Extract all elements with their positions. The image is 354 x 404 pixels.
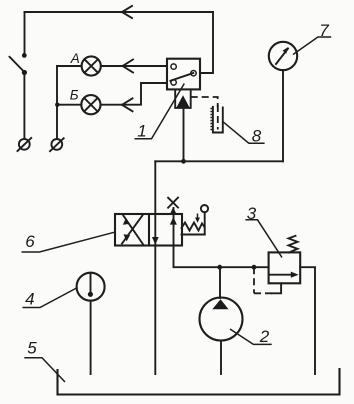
wire: main line to valve — [154, 161, 156, 214]
switch S — [10, 53, 28, 75]
directional valve 6: actuator arrow — [195, 214, 200, 223]
node: sensing junction — [181, 159, 186, 164]
wire: sensing line down — [183, 108, 185, 161]
wire: lamp A to pressure switch — [101, 60, 167, 73]
connector X2 — [50, 138, 64, 151]
wire: pump feed — [219, 267, 221, 298]
wire: thermometer stem — [90, 301, 92, 374]
tank 5 — [58, 369, 340, 395]
wire: lamp branch vertical — [56, 66, 58, 139]
svg-text:Б: Б — [70, 88, 79, 103]
node: pump junction — [217, 265, 222, 270]
label 5 — [24, 339, 65, 382]
wire: sensing header — [155, 160, 283, 162]
svg-text:4: 4 — [25, 289, 34, 308]
relief valve 3: flow arrow — [270, 272, 299, 278]
pressure switch 1: sensor element — [175, 89, 191, 108]
wire: gauge stem — [282, 70, 284, 161]
svg-text:А: А — [70, 51, 80, 66]
svg-text:5: 5 — [27, 339, 37, 358]
label 1 — [135, 84, 185, 141]
pilot line dashed to damper 8 — [191, 97, 218, 107]
pump 2 — [200, 298, 243, 341]
pressure switch 1: contacts — [170, 64, 196, 85]
wire: pump suction — [220, 341, 222, 375]
label 7 — [293, 21, 331, 54]
wire: top supply line — [25, 6, 214, 18]
directional valve 6: bottom bar — [182, 234, 205, 236]
label 6 — [22, 232, 115, 252]
wire: valve to pump/relief header — [174, 246, 269, 268]
wire: left vertical lower — [23, 72, 25, 139]
wire: right drop to pressure switch contact — [200, 12, 213, 73]
directional valve 6: lever with knob — [201, 205, 208, 235]
wire: left vertical upper — [24, 12, 26, 55]
closed port X above valve — [168, 198, 178, 208]
node: lamp branch junction — [55, 103, 59, 107]
label 3 — [245, 204, 282, 258]
svg-text:6: 6 — [25, 232, 35, 251]
label 2 — [230, 327, 272, 346]
relief valve 3: pilot line dashed — [254, 267, 273, 293]
thermometer 4 — [77, 273, 105, 301]
directional valve 6: body — [115, 214, 182, 246]
pressure switch 1: box — [167, 59, 200, 90]
wire: branch to lamp Б — [57, 104, 81, 106]
directional valve 6: spring return — [182, 223, 205, 231]
relief valve 3: box — [269, 252, 301, 283]
connector X1 — [18, 138, 32, 151]
svg-text:1: 1 — [137, 122, 146, 141]
wire: main line below valve to tank — [154, 246, 156, 375]
wire: lamp Б to pressure switch (jog) — [101, 83, 168, 111]
relief valve 3: spring — [289, 236, 298, 253]
node: pilot junction — [252, 265, 257, 270]
directional valve 6: crossed arrows — [122, 215, 143, 244]
lamp Б — [81, 95, 100, 114]
wire: branch to lamp A — [57, 65, 82, 67]
label 8 — [223, 122, 265, 146]
svg-text:2: 2 — [259, 327, 270, 346]
wire: relief outlet to tank — [300, 267, 315, 374]
lamp А — [82, 56, 101, 75]
pressure gauge 7 — [269, 42, 297, 70]
directional valve 6: straight path arrows — [152, 207, 177, 246]
label 4 — [23, 288, 78, 309]
damper 8 — [210, 105, 222, 133]
